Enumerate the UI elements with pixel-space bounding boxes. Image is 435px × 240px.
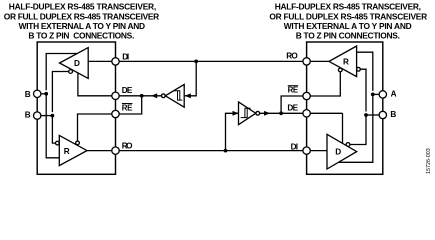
X2 hysteresis symbol <box>241 108 251 117</box>
wire node to DE pin (U1) <box>119 95 142 97</box>
arrowhead on X2 output wire <box>264 111 270 116</box>
arrowhead into X2 input <box>233 111 239 116</box>
wire RE pin to receiver enable (U2) <box>310 72 340 96</box>
inverter X2 (points right) <box>239 102 256 125</box>
wire B-top pin to rail P <box>41 93 47 95</box>
svg-text:RE: RE <box>288 86 299 95</box>
pin DI (U1) <box>112 58 119 65</box>
svg-text:OR FULL DUPLEX RS-485 TRANSCEI: OR FULL DUPLEX RS-485 TRANSCEIVER <box>269 11 427 21</box>
wire bottom: U1 RO to U2 DI <box>119 150 303 152</box>
svg-text:DI: DI <box>291 142 298 151</box>
svg-text:RO: RO <box>122 141 133 150</box>
node on bottom wire <box>224 149 228 153</box>
wire node to DE pin (U2) <box>281 112 303 114</box>
wire top: U1 DI to U2 RO <box>119 60 303 62</box>
transceiver U1 body <box>37 42 115 174</box>
svg-text:RO: RO <box>286 52 298 61</box>
svg-text:15726-003: 15726-003 <box>426 148 432 174</box>
pin RO (U2) <box>303 58 310 65</box>
X1 hysteresis symbol <box>173 91 182 100</box>
svg-text:WITH EXTERNAL A TO Y PIN AND: WITH EXTERNAL A TO Y PIN AND <box>284 21 412 31</box>
wire rail Q' down to driver Z bubble (U2) <box>350 115 366 145</box>
wire rail P' down to driver Y (U2) <box>338 94 372 162</box>
svg-text:WITH EXTERNAL A TO Y PIN AND: WITH EXTERNAL A TO Y PIN AND <box>19 21 146 31</box>
pin B (U2) <box>379 111 386 118</box>
svg-text:B: B <box>25 111 31 120</box>
caption right <box>269 2 427 41</box>
receiver enable bubble (U2) <box>338 68 342 72</box>
wire driver Z to rail Q <box>52 72 68 113</box>
svg-text:HALF-DUPLEX RS-485 TRANSCEIVER: HALF-DUPLEX RS-485 TRANSCEIVER, <box>9 2 156 12</box>
transceiver U2 body <box>307 42 383 174</box>
svg-text:RE: RE <box>122 103 133 112</box>
pin DE (U1) <box>112 92 119 99</box>
receiver R (U2, points left) <box>329 46 357 77</box>
wire RE internal to receiver enable (U1) <box>78 114 113 141</box>
node DE/RE tie (U1) <box>140 94 144 98</box>
wire B-bottom pin to rail Q <box>41 115 53 117</box>
wire top node down to inverter X1 input <box>185 61 196 95</box>
svg-text:R: R <box>343 57 349 66</box>
wire DI internal (U1) <box>88 60 112 62</box>
wire receiver output to RO pin (U2) <box>310 60 329 62</box>
wire rail P down to receiver input <box>46 94 59 158</box>
svg-text:R: R <box>64 147 70 156</box>
wire bottom node up to inverter X2 input <box>226 113 239 150</box>
svg-text:DE: DE <box>287 103 298 112</box>
wire B pin to rail Q' (U2) <box>366 114 379 116</box>
svg-text:B: B <box>390 110 396 119</box>
node: rail P junction at B-top row <box>44 92 48 96</box>
driver D (U1) <box>60 48 89 79</box>
receiver inverting input bubble (U2) <box>357 67 361 71</box>
node DE/RE tie (U2) <box>279 111 283 115</box>
caption left <box>4 2 159 41</box>
svg-text:DI: DI <box>122 52 129 61</box>
wire rail Q down to receiver bubble input <box>52 116 55 144</box>
X2 output bubble <box>256 111 260 115</box>
wire node up to RE pin (U2) <box>281 96 303 113</box>
svg-text:D: D <box>335 147 341 156</box>
driver Z bubble (U2) <box>346 143 350 147</box>
svg-text:B TO Z PIN CONNECTIONS.: B TO Z PIN CONNECTIONS. <box>296 30 400 40</box>
node on top wire <box>194 60 198 64</box>
wire A pin to rail P' (U2) <box>373 93 380 95</box>
driver D (U2, points right) <box>327 134 357 169</box>
receiver enable bubble (U1) <box>76 141 80 145</box>
pin A (U2) <box>379 91 386 98</box>
receiver inverting input bubble (U1) <box>56 141 60 145</box>
wire DI pin to driver input (U2) <box>310 150 327 152</box>
driver Z output bubble <box>69 70 73 74</box>
svg-text:A: A <box>391 90 397 99</box>
pin B bottom (U1) <box>34 112 41 119</box>
svg-text:HALF-DUPLEX RS-485 TRANSCEIVER: HALF-DUPLEX RS-485 TRANSCEIVER, <box>275 2 421 12</box>
pin B top (U1) <box>34 90 41 97</box>
wire X2 output to DE node (U2) <box>260 112 282 114</box>
svg-text:B: B <box>25 90 31 99</box>
svg-text:B TO Z PIN CONNECTIONS.: B TO Z PIN CONNECTIONS. <box>28 30 134 40</box>
wire receiver output to RO pin (U1) <box>87 150 112 152</box>
node: rail P' at A row (U2) <box>371 93 375 97</box>
inverter X1 (points left) <box>165 84 184 107</box>
wire node down to RE pin (U1) <box>119 96 142 114</box>
node: rail Q' at B row (U2) <box>364 113 368 117</box>
wire DE pin to driver enable (U2) <box>310 113 342 143</box>
svg-text:DE: DE <box>122 86 133 95</box>
wire DE internal to driver enable (U1) <box>78 73 112 96</box>
arrowhead into X1 input <box>185 93 191 98</box>
arrowhead on X1 output wire <box>151 93 157 98</box>
pin DE (U2) <box>303 110 310 117</box>
pin RO (U1) <box>112 147 119 154</box>
svg-text:OR FULL DUPLEX RS-485 TRANSCEI: OR FULL DUPLEX RS-485 TRANSCEIVER <box>4 11 159 21</box>
pin RE (U1) <box>112 110 119 117</box>
wire receiver bubble input to rail Q' (U2) <box>360 69 366 111</box>
svg-text:D: D <box>74 59 80 68</box>
receiver R (U1) <box>59 135 87 165</box>
wire X1 output to DE node <box>142 95 162 97</box>
X1 output bubble <box>162 94 166 98</box>
node: rail Q junction at B-bottom row <box>51 114 55 118</box>
pin DI (U2) <box>303 147 310 154</box>
pin RE (U2) <box>303 92 310 99</box>
receiver plain input wire from rail P' (U2) <box>357 52 373 91</box>
wire driver Y output to rail P <box>46 54 77 91</box>
